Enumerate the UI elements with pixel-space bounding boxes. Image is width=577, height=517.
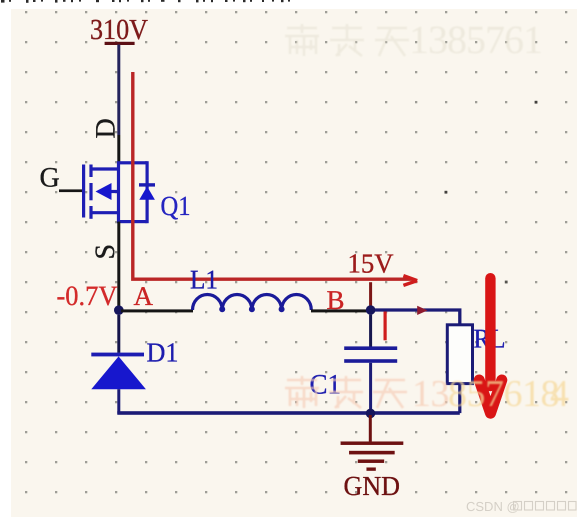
wire: RL bottom lead: [458, 384, 461, 414]
svg-text:GND: GND: [344, 470, 401, 501]
svg-text:Q1: Q1: [161, 190, 191, 221]
svg-text:4: 4: [550, 373, 569, 415]
svg-text:S: S: [90, 244, 121, 260]
current arrow on wire: [417, 306, 427, 315]
svg-text:C1: C1: [310, 370, 342, 401]
watermark bottom right: CSDN @ author: [466, 499, 576, 514]
wire: A to inductor: [121, 309, 193, 312]
svg-text:1385761: 1385761: [409, 17, 542, 62]
inductor cusp dots: [219, 306, 225, 312]
wire: inductor to B: [311, 309, 367, 312]
resistor RL body: [447, 325, 472, 384]
drain stub: [93, 167, 119, 170]
body diode triangle: [139, 186, 155, 199]
svg-text:-0.7V: -0.7V: [57, 281, 118, 312]
wire: source vertical black: [117, 222, 120, 306]
channel segment middle: [89, 183, 92, 200]
watermark top right: 蔡步文1385761: [285, 17, 542, 62]
diode D1 upper lead: [117, 315, 120, 353]
thick red load current arrow shaft: [485, 278, 495, 386]
node C1/GND junction dot: [366, 409, 376, 419]
ground lead: [369, 415, 372, 442]
body loop rectangle: [119, 163, 148, 222]
svg-text:D: D: [91, 118, 122, 138]
channel segment bottom: [89, 206, 92, 219]
capacitor C1 bottom plate: [344, 359, 397, 363]
wire: C1 to bottom rail: [369, 363, 372, 411]
darker stray grid dots: [445, 191, 448, 194]
watermark middle right: 蔡步文13857618 4 (over schematic): [285, 373, 569, 415]
MOSFET channel arrow: [96, 183, 112, 200]
source stub bottom: [93, 211, 119, 214]
svg-text:L1: L1: [190, 265, 218, 295]
power port 310V bar: [105, 42, 135, 45]
red wire from Q1 source node to 15V: [133, 72, 414, 279]
node A junction dot: [114, 305, 124, 315]
bottom rail wire: [117, 411, 460, 415]
svg-text:G: G: [40, 163, 60, 194]
wire: drain vertical (upper navy part): [117, 45, 120, 136]
svg-text:D1: D1: [147, 336, 179, 367]
15V arrowhead: [403, 276, 417, 286]
gate plate: [82, 165, 85, 218]
svg-text:13: 13: [412, 373, 449, 415]
cropped text fragments along top edge: [1, 0, 290, 3]
svg-text:A: A: [134, 281, 154, 311]
body diode bar: [139, 183, 155, 186]
diode D1 triangle: [91, 356, 146, 389]
capacitor C1 top plate: [344, 346, 397, 350]
node B junction dot: [366, 305, 376, 315]
svg-text:B: B: [327, 285, 345, 315]
svg-text:857618: 857618: [448, 373, 559, 415]
diode D1 cathode bar: [91, 353, 144, 357]
wire: drain vertical (lower black part): [117, 135, 120, 162]
inductor L1: [193, 295, 312, 311]
wire: maroon stub from 15V rail down to node B: [369, 282, 372, 305]
source stub middle: [108, 190, 119, 193]
svg-text:15V: 15V: [348, 248, 394, 279]
svg-text:CSDN @: CSDN @: [466, 499, 520, 514]
red probe stub near B: [384, 312, 387, 341]
diode D1 lower lead: [117, 389, 120, 414]
wire: B down to C1: [369, 315, 372, 347]
transistor Q1 MOSFET symbol: [84, 163, 148, 222]
wire: gate lead: [59, 189, 82, 192]
channel segment top: [89, 165, 92, 178]
wire: B to load corner: [375, 310, 460, 325]
ground symbol: [341, 442, 403, 471]
svg-text:310V: 310V: [90, 14, 148, 46]
thick red load current arrowhead: [479, 380, 502, 413]
